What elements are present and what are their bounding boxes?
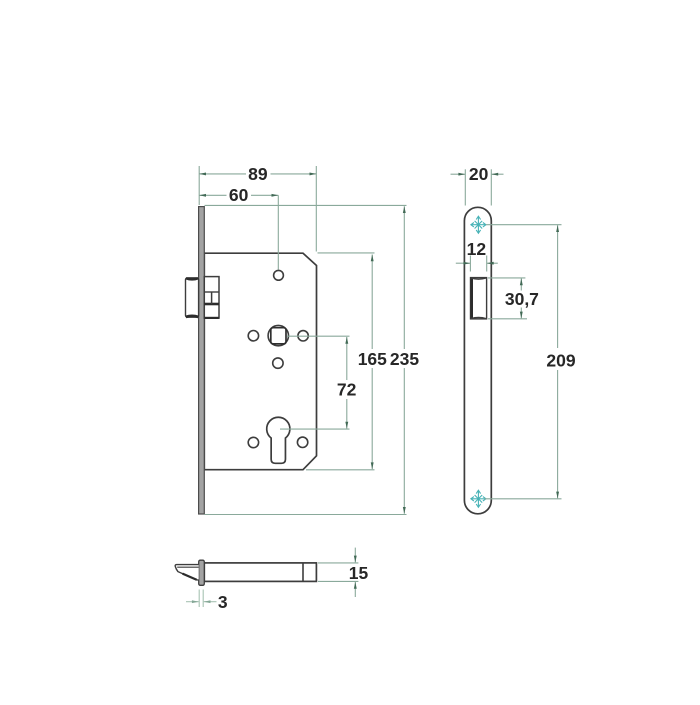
svg-text:3: 3 [218, 592, 228, 612]
dim 89 line left [199, 173, 246, 175]
ext cutout top to 30,7 [488, 277, 525, 279]
ext follower to 72 [287, 335, 350, 337]
ext line right of 89 [315, 166, 317, 252]
latch guide vertical bar [211, 292, 213, 304]
dim 15 lower segment [354, 582, 356, 597]
latch guide thick line [204, 303, 219, 306]
ext 3 right [202, 590, 204, 608]
dim 12 right segment [487, 262, 498, 264]
dim 60 line right [251, 194, 278, 196]
latch head bottom thick edge [186, 316, 199, 317]
latch cutout top concave edge [471, 278, 487, 279]
svg-text:72: 72 [337, 380, 357, 400]
ext top screw to 209 [486, 224, 562, 226]
ext latch top to 15 [318, 562, 358, 564]
svg-text:60: 60 [229, 185, 249, 205]
latch head side profile [175, 565, 199, 580]
dim 89 line right [271, 173, 317, 175]
ext 12 left [469, 256, 471, 272]
ext 20 left [464, 169, 466, 205]
latch guide box bottom thick edge [205, 317, 219, 319]
faceplate cross-section [199, 560, 205, 585]
top screw mark [471, 216, 486, 233]
ext faceplate top to 235 [205, 204, 407, 206]
ext cutout bottom to 30,7 [488, 318, 527, 320]
ext 20 right [490, 169, 492, 205]
ext line 60 down to top hole [277, 195, 279, 269]
latch guide box [204, 277, 219, 319]
ext latch bottom to 15 [318, 580, 358, 582]
latch guide inner line [204, 291, 219, 293]
ext 3 left [198, 590, 200, 608]
latch head front [186, 278, 199, 317]
hole right of cylinder [297, 437, 307, 447]
dim 15 upper segment [354, 548, 356, 563]
dim 165 line upper [371, 255, 373, 350]
dim 235 line upper [403, 206, 405, 349]
ext cylinder to 72 [280, 428, 350, 430]
ext bottom screw to 209 [485, 498, 562, 500]
ext line left of 89/60 [198, 166, 200, 205]
dim 30,7 lower [520, 308, 522, 319]
follower outer circle [268, 325, 288, 345]
dim 72 line lower [346, 399, 348, 429]
dim 20 left segment [451, 173, 466, 175]
dim 3 right segment [204, 601, 217, 603]
dim 60 line left [199, 194, 226, 196]
side faceplate rounded plate [464, 207, 491, 514]
svg-text:30,7: 30,7 [505, 289, 539, 309]
latch bar [204, 563, 316, 582]
latch bar end cap line [302, 563, 304, 581]
euro cylinder hole [267, 417, 290, 463]
svg-text:15: 15 [349, 563, 369, 583]
svg-text:12: 12 [467, 239, 487, 259]
dim 165 line lower [371, 368, 373, 469]
hole right of follower [298, 331, 308, 341]
latch cutout in side plate [471, 278, 487, 319]
latch head top thick edge [186, 278, 199, 279]
lock body [204, 253, 316, 470]
dim 209 lower [557, 370, 559, 498]
latch cutout thick left edge [470, 278, 473, 319]
follower square [271, 328, 286, 344]
ext body bottom to 165 [306, 469, 375, 471]
ext faceplate bottom to 235 [205, 514, 407, 516]
ext 12 right [486, 256, 488, 272]
hole left of follower [248, 331, 258, 341]
svg-text:209: 209 [546, 350, 575, 370]
dim 72 line upper [346, 337, 348, 380]
dim 3 left segment [186, 601, 199, 603]
hole left of cylinder [248, 437, 258, 447]
dim 209 upper [557, 225, 559, 348]
ext body top to 165 [318, 252, 375, 254]
svg-text:235: 235 [390, 349, 419, 369]
dim 20 right segment [491, 173, 503, 175]
top hole [274, 270, 284, 280]
dim 12 left segment [456, 262, 470, 264]
dim 30,7 upper [520, 278, 522, 290]
svg-text:20: 20 [469, 164, 489, 184]
bottom screw mark [471, 490, 486, 507]
dim 235 line lower [403, 368, 405, 514]
svg-text:89: 89 [248, 164, 268, 184]
faceplate front strip [199, 207, 205, 514]
svg-text:165: 165 [358, 349, 387, 369]
hole below follower [273, 358, 283, 368]
latch head inner top line [177, 566, 199, 568]
latch cutout bottom concave edge [471, 318, 487, 319]
latch head bevel thick part [183, 574, 197, 580]
